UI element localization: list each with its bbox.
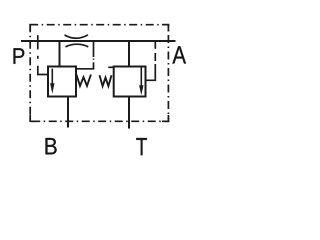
wire: V1 outlet down to port B (67, 97, 69, 128)
valve V1 flow arrow shaft (51, 69, 53, 85)
pilot line to V1 left side (dashed), tapped from P line (37, 35, 39, 49)
V1 spring-side pilot riser (dashed) to P-A line (93, 42, 95, 58)
port label P (14, 48, 25, 64)
wire: V2 outlet down to port T (128, 97, 130, 129)
V1 spring-side cap line (76, 62, 94, 68)
frame corner top-right (162, 25, 168, 31)
wire: main P to A line (21, 40, 176, 42)
spring of valve V1 (W) (76, 75, 91, 86)
V2 spring-side cap stub (108, 66, 113, 68)
valve V2 flow arrow shaft (140, 67, 142, 87)
pilot line to V2 right side (dashed), tapped from P-A line (154, 42, 156, 49)
valve V1 flow arrow head (50, 83, 54, 94)
port label B (46, 138, 57, 154)
wire: P line down to valve V1 inlet (59, 41, 61, 67)
valve V2 body (right relief valve) (114, 67, 146, 97)
orifice (restriction) lower arc (66, 44, 89, 47)
port label T (136, 138, 147, 155)
wire: P line down to valve V2 inlet (128, 41, 130, 67)
enclosure frame (dash-dot boundary) (30, 25, 168, 122)
valve V2 flow arrow head (139, 85, 143, 95)
orifice (restriction) upper arc (65, 35, 89, 38)
valve V1 body (left relief valve) (48, 67, 76, 97)
spring of valve V2 (W) (100, 75, 112, 86)
frame corner bottom-right (162, 115, 168, 121)
port label A (172, 46, 186, 63)
frame corner bottom-left (30, 115, 36, 121)
frame corner top-left (30, 25, 36, 31)
